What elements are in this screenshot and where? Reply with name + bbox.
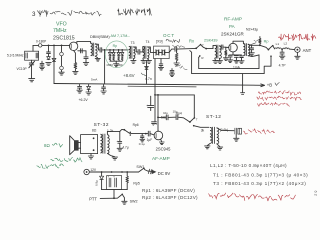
- coupling capacitor C20: [148, 131, 150, 136]
- collector wire of Q1: [77, 42, 91, 44]
- ground under C16: [280, 56, 285, 59]
- wire to PTT line: [113, 190, 115, 199]
- wire ST-32 secondary top: [107, 131, 119, 141]
- transformer T1: [91, 43, 93, 55]
- svg-text:+B: +B: [267, 83, 273, 88]
- svg-text:2SC945: 2SC945: [156, 147, 172, 152]
- coupling capacitor C7: [133, 47, 137, 52]
- svg-text:L2: L2: [284, 42, 288, 46]
- wire ST-12 secondary bottom: [217, 144, 220, 147]
- capacitor C16 LPF: [281, 49, 283, 52]
- svg-text:PTT: PTT: [89, 197, 97, 202]
- bypass capacitor C5: [85, 51, 87, 57]
- electrolytic capacitor C10: [171, 69, 173, 71]
- wire stub with dot: [154, 94, 156, 96]
- resistor Rp5: [126, 172, 128, 176]
- power terminal +12V: [84, 169, 89, 174]
- title text zenkairozu: [118, 9, 152, 16]
- transformer ST-32: [100, 134, 102, 153]
- wire ST-32 secondary bottom: [107, 153, 114, 156]
- transformer ST-12: [210, 127, 212, 143]
- wire power bus: [89, 171, 138, 173]
- wire mic line: [131, 133, 149, 135]
- svg-text:1.2k: 1.2k: [107, 129, 114, 133]
- wire filter output: [165, 49, 174, 52]
- svg-text:1mA: 1mA: [233, 66, 241, 70]
- zener diode D7 column: [146, 62, 148, 84]
- svg-text:[X9]: [X9]: [156, 39, 163, 43]
- node dots on VFO wire: [48, 45, 50, 47]
- ground under SW2: [122, 201, 127, 204]
- ground under C18: [101, 91, 106, 94]
- trimmer capacitor VC2: [31, 60, 33, 63]
- wire to ST-12: [194, 126, 209, 128]
- label CuP with leader: [254, 40, 261, 42]
- transformer T3: [129, 46, 131, 58]
- source bus of Q2: [232, 52, 234, 55]
- transformer T4: [143, 46, 145, 58]
- wire DBM bias column: [104, 50, 106, 84]
- resistor R3 gate bias: [225, 47, 227, 50]
- ground under C2: [40, 67, 45, 70]
- ground under C9: [158, 67, 163, 70]
- label coupling cap: [172, 45, 185, 48]
- svg-text:2SK439: 2SK439: [204, 38, 218, 42]
- svg-text:RF-AMP: RF-AMP: [224, 16, 242, 21]
- ground under D1: [46, 63, 51, 66]
- diode D2: [52, 58, 56, 61]
- coupling capacitor C11: [219, 46, 220, 47]
- svg-text:DBM(SBM): DBM(SBM): [90, 34, 110, 39]
- ground ST-12 secondary: [217, 147, 222, 150]
- switch SW2 PTT: [117, 195, 121, 199]
- feedback capacitor C4: [78, 50, 86, 52]
- volume pot cluster cap: [152, 122, 157, 124]
- transistor Q3 2SC945: [154, 131, 163, 140]
- resistor Rp drain feed: [259, 44, 261, 46]
- svg-text:4.7n: 4.7n: [145, 77, 152, 81]
- label 10u: [175, 65, 181, 67]
- svg-text:L1,L2 : T-50-10 0.8φ×40T (4μH: L1,L2 : T-50-10 0.8φ×40T (4μH): [210, 163, 287, 168]
- ground under Q3 emitter: [159, 142, 164, 145]
- capacitor box: [107, 176, 122, 190]
- crystal earphone: [235, 128, 237, 134]
- svg-text:ST-12: ST-12: [206, 114, 222, 119]
- ground under VC2: [29, 79, 35, 82]
- capacitor C9 to ground: [160, 59, 162, 64]
- svg-text:PA: PA: [229, 24, 235, 29]
- svg-text:L1: L1: [276, 42, 280, 46]
- wire VFO top: [33, 44, 38, 46]
- svg-text:VC10P: VC10P: [17, 67, 27, 71]
- svg-text:5.3-5.9MHz: 5.3-5.9MHz: [7, 54, 24, 58]
- transformer T5: [215, 45, 217, 58]
- ground under earphone: [235, 135, 237, 138]
- ground under box: [90, 154, 92, 156]
- coupling capacitor C8: [175, 47, 177, 51]
- ground under C17: [77, 90, 82, 93]
- coupling capacitor C6: [98, 49, 99, 51]
- capacitor C17 below rail: [79, 85, 81, 87]
- electrolytic C26: [115, 178, 117, 187]
- antenna jack J1: [295, 47, 300, 52]
- resonator box X1: [25, 51, 39, 60]
- collector bend of Q3: [157, 130, 159, 133]
- wire switch R down: [199, 56, 200, 58]
- ground ST-32 secondary: [112, 157, 117, 160]
- ground under T3: [131, 61, 136, 64]
- svg-text:6.8μ: 6.8μ: [95, 180, 99, 186]
- ground under T1: [95, 58, 100, 61]
- electrolytic C22: [166, 115, 168, 120]
- svg-text:ANT: ANT: [303, 48, 312, 53]
- wire to DC out arrow: [144, 170, 151, 172]
- electrolytic C24: [118, 141, 122, 143]
- wire to resonator box: [32, 45, 34, 51]
- connector T-bar: [240, 93, 245, 95]
- wire down to audio switch: [193, 95, 195, 118]
- varactor diode D1: [47, 57, 51, 60]
- wire column to rail: [53, 45, 55, 83]
- wire ST-12 primary bottom: [207, 144, 210, 146]
- ground under T5: [213, 61, 218, 64]
- svg-text:SW2: SW2: [130, 199, 138, 203]
- svg-text:Rp1 : 6LA39PF (DC6V): Rp1 : 6LA39PF (DC6V): [142, 188, 195, 193]
- wire box to switch: [120, 129, 125, 131]
- ground under trimmer: [59, 72, 64, 75]
- svg-text:7MHz: 7MHz: [53, 28, 67, 34]
- capacitor C2: [41, 61, 43, 63]
- wire bottom bus: [102, 189, 128, 191]
- ground under T4: [146, 61, 151, 64]
- svg-text:Rx: Rx: [189, 38, 194, 43]
- green note speaker mic: [51, 158, 82, 163]
- ground under J1: [296, 52, 298, 56]
- electrolytic C13: [234, 56, 238, 58]
- svg-text:4.7P: 4.7P: [279, 63, 287, 67]
- ground under R1: [73, 71, 78, 74]
- svg-text:Rp: Rp: [113, 44, 118, 48]
- svg-text:12V: 12V: [90, 168, 97, 172]
- emitter of Q3: [161, 139, 162, 141]
- ground DBM: [114, 64, 119, 67]
- ground under R2: [174, 63, 179, 66]
- red label crystal earphone: [243, 129, 274, 134]
- svg-text:T: T: [196, 117, 198, 121]
- svg-text:DC 9V: DC 9V: [158, 171, 171, 176]
- connection box: [81, 135, 98, 154]
- svg-text:8Ω: 8Ω: [92, 128, 97, 132]
- wire AF output: [158, 116, 166, 118]
- electrolytic C25: [109, 178, 111, 187]
- svg-text:+: +: [116, 139, 118, 143]
- svg-text:T4: T4: [146, 40, 150, 44]
- wire long vertical to AF section: [154, 59, 156, 122]
- svg-text:OCT: OCT: [163, 33, 175, 38]
- svg-text:0.1μ: 0.1μ: [139, 142, 145, 146]
- ground under T5 right: [218, 58, 220, 60]
- svg-text:6 2: 6 2: [314, 191, 318, 196]
- ground under C24: [117, 148, 122, 151]
- ground under C21: [140, 139, 145, 142]
- trimmer capacitor VC1: [39, 44, 42, 47]
- svg-text:5mA: 5mA: [91, 78, 98, 82]
- transistor Q2 2SK241: [229, 43, 238, 52]
- svg-text:Rp: Rp: [264, 40, 269, 44]
- ground under D8: [86, 92, 91, 95]
- capacitor C14: [240, 56, 244, 58]
- svg-text:10μ: 10μ: [163, 111, 168, 115]
- wire DBM bottom: [110, 60, 122, 62]
- svg-text:1μF: 1μF: [147, 138, 153, 142]
- svg-text:+6.2V: +6.2V: [79, 98, 89, 102]
- wire to earphone: [217, 128, 234, 131]
- svg-text:8Ω: 8Ω: [44, 143, 50, 148]
- crystal X3: [159, 51, 162, 53]
- red note block right: [258, 91, 300, 95]
- capacitor C15: [251, 46, 253, 48]
- svg-text:T3: T3: [131, 41, 135, 45]
- svg-text:+8.6V: +8.6V: [123, 73, 135, 78]
- ground under C13: [234, 60, 239, 63]
- svg-text:4.7μ: 4.7μ: [122, 146, 128, 150]
- zener diode D9: [101, 172, 103, 176]
- electrolytic C19: [150, 96, 152, 105]
- wire T6 secondary top: [248, 44, 268, 49]
- wire rail branch: [128, 85, 196, 88]
- label VGA: [180, 66, 187, 70]
- svg-text:T1 : FB801-43 0.3φ 1(7T)×3 (μ: T1 : FB801-43 0.3φ 1(7T)×3 (μ 40×3): [213, 173, 308, 178]
- wire AF collector vertical: [157, 95, 159, 131]
- ground ST-12 primary: [205, 146, 210, 149]
- red note bottom: [208, 193, 295, 201]
- svg-text:2SC1815: 2SC1815: [53, 35, 75, 41]
- svg-text:T3 : FB801-43 0.3φ 1(7T)×2 (4: T3 : FB801-43 0.3φ 1(7T)×2 (40μ×2): [213, 181, 306, 186]
- svg-text:Rp5: Rp5: [133, 182, 139, 186]
- svg-text:ST-32: ST-32: [94, 122, 110, 127]
- wire switch T to RF amp: [201, 45, 213, 49]
- svg-text:2SK241GR: 2SK241GR: [221, 32, 245, 37]
- svg-text:1N60: 1N60: [106, 63, 113, 67]
- drain wire of Q2: [233, 41, 243, 43]
- +B supply rail: [54, 84, 264, 86]
- TX/RX switch SW-A: [195, 47, 197, 49]
- ground under T4 left: [142, 59, 145, 61]
- wire PTT: [100, 197, 117, 199]
- ground under C12: [228, 60, 233, 63]
- svg-text:1N60: 1N60: [116, 63, 123, 67]
- audio TX/RX switch SW-D: [189, 121, 191, 123]
- crystal filter box: [154, 46, 170, 59]
- emitter resistor R1: [74, 51, 76, 63]
- diode ring D3-D6: [109, 49, 111, 51]
- electrolytic C23: [176, 115, 178, 120]
- wire AF supply horizontal: [155, 94, 194, 96]
- svg-text:VFO: VFO: [56, 21, 67, 27]
- red note top right: [279, 34, 316, 40]
- svg-text:AF-AMP: AF-AMP: [152, 156, 170, 161]
- wire receive return inner: [199, 55, 259, 69]
- DBM circled region: [105, 41, 128, 68]
- diode D8 below rail: [88, 85, 90, 87]
- svg-text:Rp4: Rp4: [176, 111, 182, 115]
- svg-text:Rp2 : 6LA43PF (DC12V): Rp2 : 6LA43PF (DC12V): [142, 195, 198, 200]
- wire receive return outer: [190, 51, 271, 74]
- svg-text:N2×43μ: N2×43μ: [246, 27, 258, 31]
- svg-text:Rp6: Rp6: [133, 123, 139, 127]
- wire to lower connector: [242, 74, 244, 93]
- wire speaker to box: [79, 142, 81, 144]
- wire T6 secondary bottom: [248, 55, 259, 57]
- ground under C10: [169, 74, 174, 77]
- antenna TX/RX switch SW-B: [268, 49, 270, 51]
- transformer T6 output: [243, 44, 245, 56]
- capacitor C12: [228, 55, 232, 57]
- resistor R2 to ground: [176, 49, 178, 53]
- capacitor C18 below rail: [103, 85, 105, 87]
- svg-text:AM 7,17M--: AM 7,17M--: [111, 34, 131, 38]
- svg-text:+: +: [146, 104, 148, 108]
- audio input switch SW-C: [123, 129, 125, 131]
- svg-text:3k: 3k: [201, 128, 205, 132]
- svg-text:0-180P: 0-180P: [36, 40, 46, 44]
- capacitor C3 column: [48, 45, 50, 51]
- speaker SP1: [74, 140, 79, 150]
- ground under C15: [249, 53, 254, 56]
- crystal X2: [147, 47, 156, 53]
- transistor Q1 2SC1815 VFO: [69, 42, 77, 50]
- ground under C5: [83, 63, 88, 66]
- ground under C14: [239, 61, 244, 64]
- wire T1 leads: [90, 42, 92, 44]
- svg-text:3: 3: [32, 11, 36, 18]
- svg-text:+: +: [233, 52, 235, 56]
- capacitor C21 to ground: [141, 134, 143, 136]
- trimmer resistor column: [61, 45, 63, 52]
